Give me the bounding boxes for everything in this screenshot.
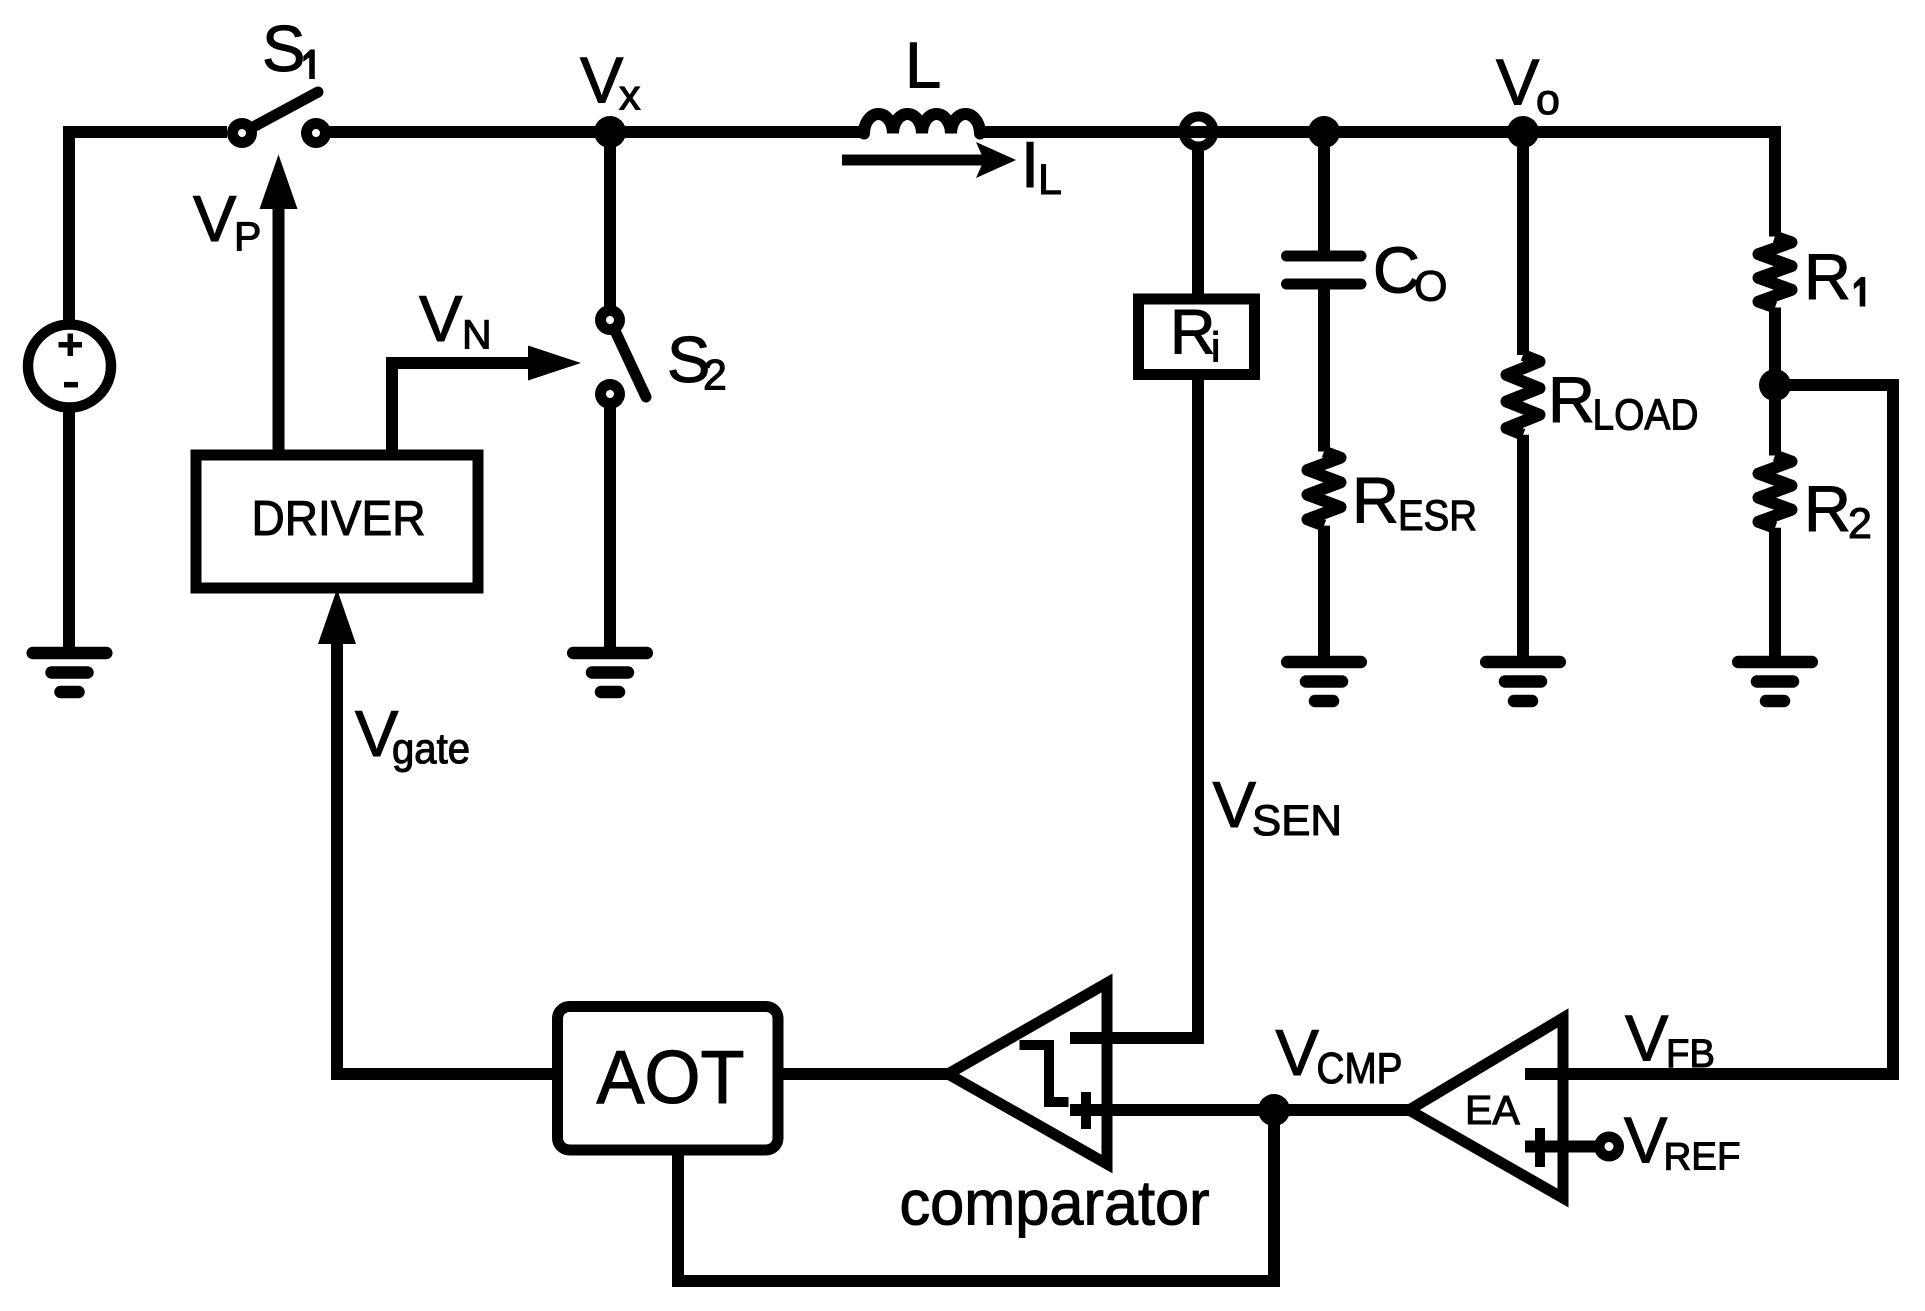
svg-text:x: x [619,72,641,120]
svg-text:N: N [462,312,492,358]
svg-text:EA: EA [1465,1087,1520,1133]
svg-text:SEN: SEN [1252,797,1342,845]
svg-text:ESR: ESR [1398,492,1477,540]
svg-text:i: i [1211,324,1220,371]
svg-text:L: L [1038,156,1062,204]
svg-text:L: L [905,29,941,102]
svg-text:gate: gate [392,725,470,773]
svg-text:REF: REF [1664,1136,1741,1179]
svg-text:o: o [1536,76,1560,124]
svg-text:V: V [193,182,237,255]
svg-text:V: V [1496,46,1540,119]
svg-text:V: V [580,44,624,117]
svg-text:R: R [1170,298,1216,368]
svg-text:V: V [1213,768,1257,841]
svg-text:2: 2 [1848,500,1872,548]
svg-text:R: R [1548,363,1595,436]
svg-text:O: O [1414,263,1447,311]
svg-text:R: R [1804,240,1851,313]
svg-text:P: P [234,214,261,260]
svg-text:AOT: AOT [597,1035,745,1119]
svg-text:R: R [1352,463,1399,536]
svg-text:FB: FB [1666,1032,1715,1076]
svg-text:LOAD: LOAD [1593,391,1699,440]
svg-text:S: S [262,12,305,85]
svg-text:V: V [1276,1016,1320,1089]
svg-text:comparator: comparator [900,1169,1210,1239]
svg-text:I: I [1021,128,1039,201]
svg-text:C: C [1373,234,1420,307]
svg-text:V: V [1624,1104,1668,1177]
svg-text:R: R [1804,472,1851,545]
svg-text:V: V [1625,1002,1669,1075]
svg-text:V: V [419,282,463,355]
svg-text:CMP: CMP [1317,1044,1403,1093]
svg-text:2: 2 [703,352,727,400]
svg-text:DRIVER: DRIVER [252,491,426,546]
